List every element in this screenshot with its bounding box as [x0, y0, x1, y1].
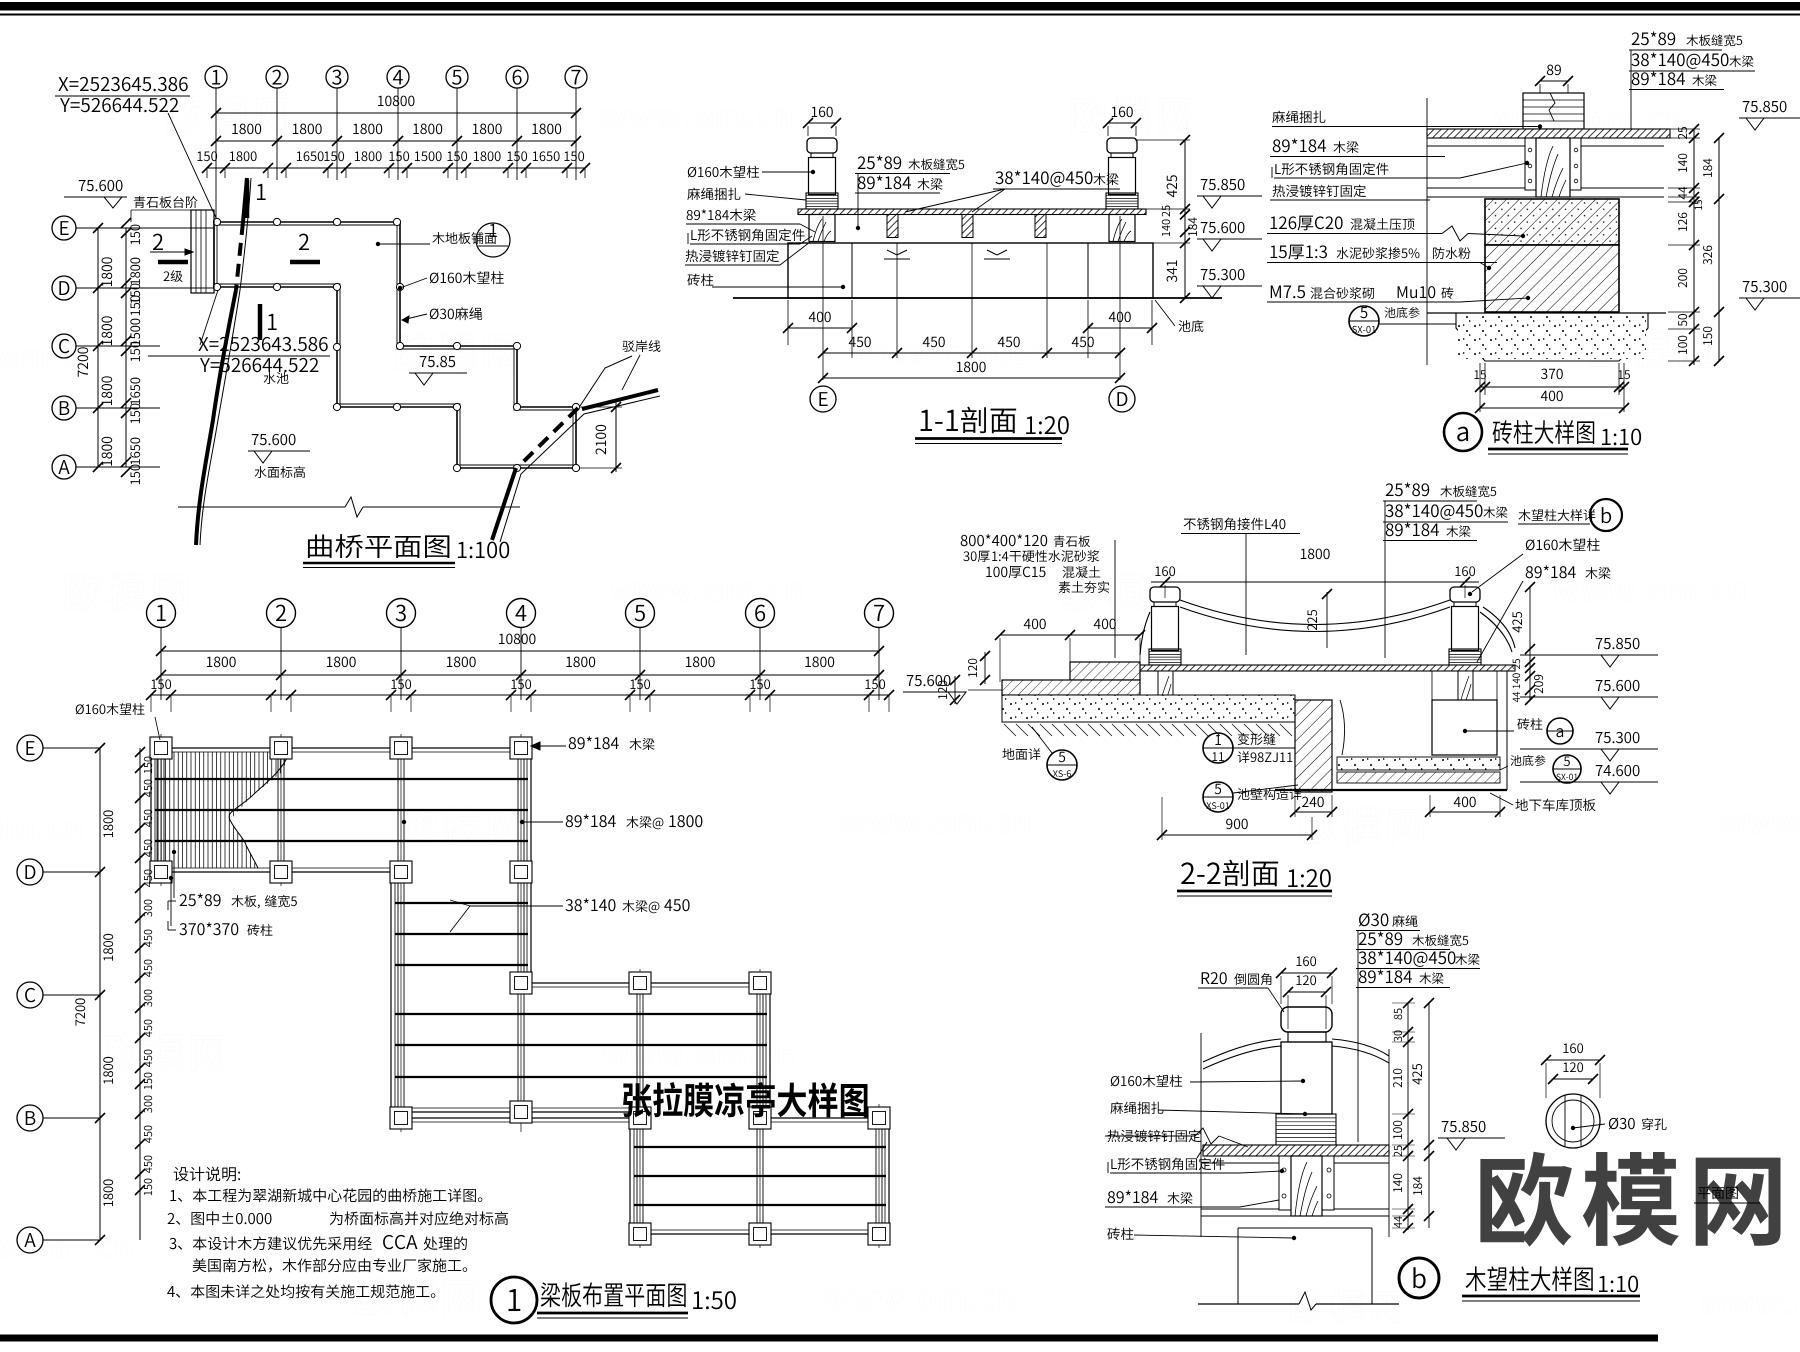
beam plan title — [491, 1277, 537, 1323]
detail-b left extension line — [1200, 1033, 1202, 1237]
beam plan column squares — [150, 737, 172, 759]
detail-a bottom dims — [1479, 363, 1481, 412]
section 2-2 brick pier below deck — [1432, 700, 1497, 755]
bridge deck posts — [213, 218, 220, 225]
section 2-2 dims 400 400 — [1000, 634, 1140, 636]
section 2-2 ref bubble 5/XS-01 pool wall — [1203, 782, 1233, 812]
beam plan deck outline outer — [151, 748, 889, 1234]
page top border bar — [0, 2, 1800, 11]
beam plan label 25x89 plank — [180, 894, 187, 906]
steps at bridge west end — [191, 210, 214, 293]
section 2-2 level 75.600 left extension — [968, 689, 1002, 691]
section 2-2 ref bubble 1/11 expansion joint — [1203, 733, 1233, 763]
detail-a title — [1444, 413, 1482, 451]
plan bottom break line — [178, 506, 345, 508]
label pool — [264, 372, 276, 384]
section 1-1 deck plank strip — [798, 209, 1146, 215]
detail-b post cap — [1281, 1007, 1332, 1032]
section 1-1 dim 160 above posts — [812, 107, 818, 117]
section 2-2 ground bands — [1002, 695, 1295, 722]
detail-b level 75.850 — [1442, 1121, 1449, 1132]
section 1-1 left labels — [688, 167, 696, 178]
plan level 75.600 top-left — [79, 180, 86, 191]
section 2-2 label buxiugang L40 — [1184, 519, 1196, 530]
detail-b small plan label — [1698, 1187, 1711, 1199]
section 2-2 pool structure — [1506, 671, 1508, 790]
section 2-2 dim 1800 and 160 — [1301, 549, 1307, 559]
section 2-2 label 89x184 — [1526, 566, 1533, 578]
detail-a deck plank strip — [1427, 129, 1670, 138]
detail-a dim 89 and beam stub — [1547, 65, 1553, 76]
section 2-2 label dia160 — [1526, 539, 1535, 550]
page bottom border bar — [0, 1335, 1658, 1342]
section 2-2 ref bubble b + label — [1518, 509, 1530, 521]
detail-b title — [1399, 1258, 1439, 1298]
detail-a right dim chain 2 — [1718, 138, 1720, 361]
beam plan dims 1800 — [207, 657, 213, 667]
label 2 steps arrow — [164, 271, 170, 281]
beam plan labels right — [569, 737, 576, 749]
detail-a brick pier cap with hatch — [1485, 199, 1619, 245]
detail-b post body — [1281, 1042, 1332, 1114]
section 1-1 label chidi — [1179, 320, 1191, 332]
beam plan label dia160 post — [76, 704, 84, 714]
beam plan axis bubbles 1-7 — [147, 599, 176, 628]
section mark 2-2 left — [153, 234, 163, 250]
section 1-1 joists — [887, 215, 898, 238]
section 2-2 title — [1181, 862, 1194, 884]
label boankane — [622, 340, 634, 352]
label wood deck surface + ref bubble 1 — [432, 232, 444, 244]
section 1-1 posts — [807, 138, 837, 153]
beam plan dim 10800 — [499, 634, 505, 644]
detail-b dims above cap — [1296, 956, 1301, 966]
section 2-2 wood beams below deck — [1158, 671, 1173, 700]
section 2-2 ref bubble 5/XS-6 ground — [1002, 748, 1014, 760]
plan top dim row small chain — [197, 151, 202, 161]
plan coordinate text X/Y mid — [198, 337, 208, 351]
detail-b deck strip — [1203, 1145, 1389, 1156]
section 2-2 posts — [1150, 587, 1180, 602]
section 2-2 steps blocks — [1070, 662, 1140, 680]
beam plan axis beams vertical — [157, 748, 159, 872]
bridge deck outline inner — [217, 225, 573, 465]
section 2-2 top-right label stack — [1386, 483, 1394, 496]
section 1-1 ground line — [733, 297, 1222, 299]
section 1-1 wood beams under posts — [809, 215, 835, 242]
section 1-1 brick pier block — [788, 243, 1153, 298]
section 2-2 dims 120 120 — [984, 652, 986, 684]
detail-b rope curves — [1203, 1039, 1281, 1062]
plan title — [308, 534, 332, 558]
section 2-2 left label stack — [961, 535, 968, 546]
section 1-1 title — [921, 410, 932, 431]
detail-a foundation pad — [1427, 312, 1666, 314]
plan axis vertical lines — [215, 88, 217, 222]
section 1-1 axis bubbles E D — [810, 386, 836, 412]
section 1-1 right dim chain — [1146, 208, 1190, 210]
label dia160 wood post plan — [430, 272, 439, 283]
detail-b ground break line — [1198, 1303, 1299, 1305]
section 2-2 bottom dims — [1294, 795, 1296, 817]
plan left dim chains — [97, 228, 99, 467]
beam plan left dim chains — [99, 748, 101, 1240]
section 2-2 dim 225 — [1326, 592, 1328, 648]
section mark 2-2 right — [299, 234, 309, 250]
section 2-2 expansion joint wall — [1295, 700, 1332, 792]
section 2-2 levels right — [1596, 638, 1603, 649]
beam plan label 370x370 pier — [179, 923, 186, 935]
dim 2100 east — [580, 406, 622, 408]
section mark 1-1 top — [245, 180, 250, 218]
zhanlamo title text overlap — [623, 1083, 652, 1117]
detail-b small plan circle — [1546, 1094, 1600, 1148]
shoreline east — [580, 356, 632, 406]
plan top dim row 10800 — [378, 96, 384, 106]
detail-b right dim chains — [1407, 1003, 1409, 1230]
detail-a brick pier body hatch — [1485, 245, 1619, 312]
level 75.600 water in plan — [252, 434, 259, 445]
level 75.85 in plan — [420, 356, 427, 367]
detail-a levels — [1743, 101, 1750, 112]
section 2-2 label chidican + bubble 5/SX-01 — [1510, 755, 1521, 766]
design notes — [174, 1167, 189, 1181]
beam plan dims 150 — [151, 679, 156, 689]
detail-b beam assembly — [1279, 1156, 1291, 1210]
beam plan level 75.600 — [907, 675, 914, 686]
label dia30 rope plan — [430, 308, 439, 319]
detail-a right dim chain 1 — [1693, 129, 1695, 365]
detail-b pier below — [1237, 1228, 1239, 1304]
section 2-2 right dim chain — [1529, 587, 1531, 700]
beam plan joists — [155, 778, 528, 780]
plan label qingshiban steps — [134, 196, 145, 208]
beam plan left axis bubbles — [17, 735, 43, 761]
plan left axis bubbles E-A — [52, 216, 76, 240]
detail-a top label stack — [1632, 32, 1640, 45]
shoreline west thick curve — [243, 178, 247, 222]
detail-a left labels — [1272, 111, 1285, 123]
plan axis bubbles 1-7 — [205, 66, 227, 88]
detail-b labels left — [1111, 1076, 1119, 1087]
bridge deck outline outer — [214, 222, 576, 468]
section 1-1 bottom dims — [787, 300, 789, 345]
section 2-2 label zhuanzhu + bubble a — [1517, 718, 1529, 730]
section 1-1 levels right — [1201, 179, 1208, 190]
section 2-2 label underground garage roof — [1515, 799, 1528, 811]
plan top dim row 1800s — [232, 124, 238, 134]
plan coordinate text X/Y top-left — [58, 77, 68, 91]
detail-b top label stack — [1359, 913, 1370, 926]
detail-a beam assembly with wood grain — [1525, 138, 1536, 190]
section 1-1 top labels — [858, 156, 866, 169]
detail-a left extension line — [1426, 98, 1428, 365]
beam plan deck outline inner — [155, 752, 885, 1230]
detail-b big logo — [1480, 1152, 1572, 1247]
section 2-2 deck strip — [1140, 665, 1515, 671]
section 2-2 rope sag curves — [1180, 600, 1450, 625]
detail-a ref bubble 5/SX-01 chidican — [1349, 306, 1379, 336]
watermark tile — [168, 96, 205, 134]
detail-b rope wrap — [1276, 1114, 1336, 1145]
section mark 1-1 bottom — [258, 304, 263, 340]
detail-b label R20 — [1202, 972, 1210, 984]
